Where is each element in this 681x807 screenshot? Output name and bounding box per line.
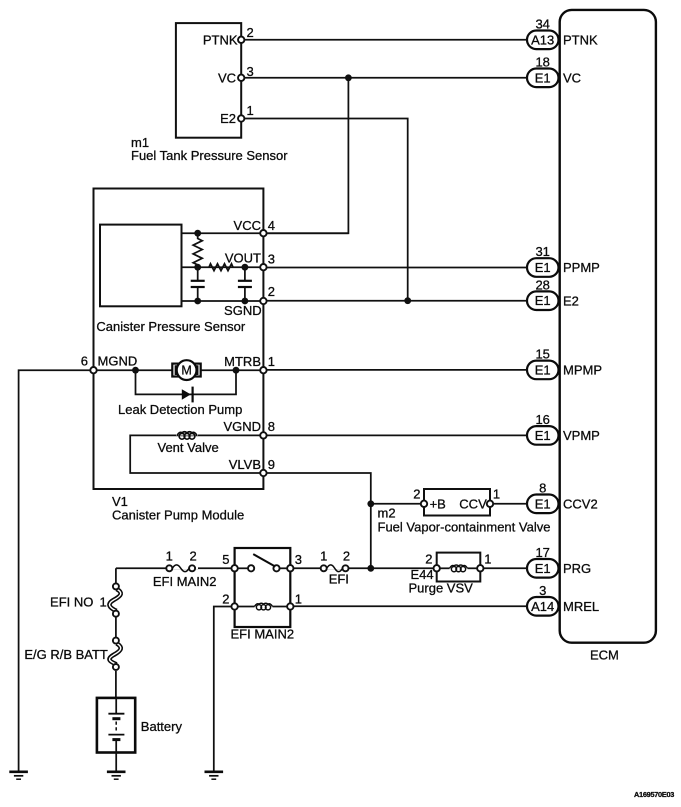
wire relay pin 2 to ground	[214, 607, 235, 771]
svg-text:PRG: PRG	[563, 561, 591, 576]
diode branch wire	[136, 370, 237, 394]
battery cells	[108, 698, 124, 771]
svg-text:1: 1	[320, 548, 327, 563]
junction +B/CCV	[367, 500, 374, 507]
wire VLVB: pin 9 right then down to CCV node	[263, 473, 370, 504]
wire MREL: relay pin 1 to ECM A14	[290, 605, 527, 607]
svg-text:E1: E1	[535, 362, 551, 377]
svg-text:2: 2	[425, 552, 432, 567]
wire fuse row to relay pin 5	[116, 567, 235, 569]
resistor R2 (series, horizontal)	[209, 264, 233, 271]
wire VOUT row: sensor to pin 3	[182, 266, 264, 268]
V1 pin 3 VOUT	[225, 250, 275, 270]
capacitor C1	[191, 267, 205, 301]
svg-text:EFI MAIN2: EFI MAIN2	[231, 627, 295, 642]
wire MPMP: pin 1 to ECM E1	[263, 369, 527, 371]
svg-text:16: 16	[535, 412, 549, 427]
svg-text:2: 2	[247, 25, 254, 40]
battery box	[97, 698, 135, 753]
ECM pin E1 PRG, terminal 17	[527, 545, 591, 578]
junction SGND/C2	[242, 298, 249, 305]
wire MGND to MTRB row inside V1	[94, 369, 264, 371]
svg-text:Canister Pump Module: Canister Pump Module	[112, 508, 244, 523]
svg-text:28: 28	[535, 277, 549, 292]
junction EFI/VSV node	[367, 565, 374, 572]
ground for relay pin 2	[205, 772, 224, 779]
ground for battery	[107, 772, 126, 779]
svg-text:E1: E1	[535, 260, 551, 275]
svg-text:A169570E03: A169570E03	[634, 790, 674, 799]
m1 component label	[131, 135, 288, 163]
svg-text:E1: E1	[535, 561, 551, 576]
svg-text:MTRB: MTRB	[224, 354, 261, 369]
wire VC branch down to VCC	[263, 78, 348, 233]
svg-text:3: 3	[295, 552, 302, 567]
junction SGND/C1	[194, 298, 201, 305]
svg-text:E2: E2	[563, 293, 579, 308]
junction motor right	[233, 367, 240, 374]
ECM box	[560, 10, 656, 643]
vent valve coil L1	[176, 430, 198, 440]
svg-text:1: 1	[268, 354, 275, 369]
svg-text:Battery: Battery	[141, 719, 183, 734]
svg-text:Canister Pressure Sensor: Canister Pressure Sensor	[96, 319, 246, 334]
ECM pin E1 CCV2, terminal 8	[527, 481, 598, 514]
svg-text:8: 8	[539, 481, 546, 496]
V1 pin 4 VCC	[234, 218, 275, 236]
wire PRG: VSV pin 1 to ECM E1	[480, 567, 527, 569]
svg-text:15: 15	[535, 347, 549, 362]
svg-text:6: 6	[81, 354, 88, 369]
svg-text:5: 5	[222, 552, 229, 567]
svg-text:VC: VC	[218, 70, 236, 85]
fuse EFI	[320, 548, 350, 586]
V1 component label	[112, 494, 244, 523]
junction VOUT/C2	[242, 264, 249, 271]
wire PPMP: pin 3 to ECM E1	[263, 267, 527, 269]
svg-text:1: 1	[295, 592, 302, 607]
CCV pin 2	[413, 487, 427, 507]
svg-text:1: 1	[100, 595, 107, 610]
relay pin 5	[222, 552, 238, 572]
ECM pin E1 MPMP, terminal 15	[527, 347, 602, 380]
wire VPMP: pin 8 to ECM E1	[263, 434, 527, 436]
svg-text:VPMP: VPMP	[563, 428, 600, 443]
svg-text:E/G R/B BATT: E/G R/B BATT	[24, 647, 108, 662]
svg-text:3: 3	[268, 252, 275, 267]
svg-text:VCC: VCC	[234, 218, 261, 233]
svg-text:MPMP: MPMP	[563, 363, 602, 378]
svg-text:+B: +B	[430, 496, 446, 511]
svg-text:E1: E1	[535, 293, 551, 308]
wire node to CCV pin 2	[371, 503, 424, 505]
purge VSV pin 1	[477, 552, 491, 572]
junction motor left	[132, 367, 139, 374]
svg-text:CCV2: CCV2	[563, 496, 598, 511]
svg-text:1: 1	[484, 552, 491, 567]
svg-text:EFI: EFI	[329, 571, 349, 586]
svg-text:8: 8	[268, 419, 275, 434]
ground for MGND	[9, 772, 28, 779]
svg-text:E2: E2	[220, 111, 236, 126]
svg-text:E1: E1	[535, 496, 551, 511]
wire PTNK: m1 pin 2 to ECM A13	[241, 39, 527, 41]
svg-text:2: 2	[268, 284, 275, 299]
svg-text:2: 2	[222, 592, 229, 607]
svg-text:VGND: VGND	[223, 419, 261, 434]
svg-text:M: M	[181, 364, 191, 378]
wire E2: m1 pin 1 right then down to E2 net	[241, 119, 408, 301]
svg-text:VOUT: VOUT	[225, 250, 261, 265]
svg-text:3: 3	[247, 64, 254, 79]
fuel vapor-containment valve CCV box	[424, 489, 490, 516]
m1 pin 3 VC	[238, 64, 254, 81]
svg-text:34: 34	[535, 17, 549, 32]
V1 pin 6 MGND	[81, 354, 137, 374]
svg-text:MREL: MREL	[563, 599, 599, 614]
ECM pin E1 VC, terminal 18	[527, 55, 581, 88]
relay switch contact	[235, 554, 291, 571]
V1 pin 9 VLVB	[229, 457, 275, 476]
junction E2 net	[404, 297, 411, 304]
svg-text:9: 9	[268, 457, 275, 472]
wire SGND row: sensor to pin 2	[182, 300, 264, 302]
ECM pin E1 E2, terminal 28	[527, 277, 579, 310]
ECM pin E1 VPMP, terminal 16	[527, 412, 600, 445]
svg-text:2: 2	[189, 548, 196, 563]
svg-text:A14: A14	[531, 599, 554, 614]
relay pin 1	[287, 592, 302, 610]
svg-text:ECM: ECM	[590, 648, 619, 663]
relay pin 2	[222, 592, 238, 610]
junction VC/VCC	[345, 74, 352, 81]
motor M (leak detection pump)	[172, 360, 200, 380]
svg-text:CCV: CCV	[459, 496, 487, 511]
svg-text:18: 18	[535, 55, 549, 70]
wire CCV2: CCV pin 1 to ECM E1	[490, 503, 527, 505]
V1 pin 1 MTRB	[224, 354, 275, 373]
svg-text:2: 2	[343, 548, 350, 563]
purge VSV pin 2	[425, 552, 440, 572]
V1 pin 8 VGND	[223, 419, 275, 438]
fuse EFI MAIN2	[153, 548, 217, 589]
wire relay pin 3 to EFI fuse to VSV node	[290, 567, 371, 569]
canister pressure sensor inner box	[100, 225, 182, 307]
vent valve loop wire	[130, 435, 263, 473]
svg-text:E1: E1	[535, 70, 551, 85]
capacitor C2	[238, 267, 252, 301]
svg-text:PTNK: PTNK	[203, 32, 238, 47]
m1 pin 1 E2	[238, 103, 254, 122]
purge VSV box	[437, 553, 481, 582]
wire +B node down to EFI node	[370, 504, 372, 569]
ECM pin E1 PPMP, terminal 31	[527, 244, 600, 277]
wire fuse row down to battery	[115, 568, 117, 698]
svg-text:1: 1	[166, 548, 173, 563]
wire VC: m1 pin 3 to ECM E1	[241, 77, 527, 79]
relay coil	[235, 603, 291, 610]
svg-text:VC: VC	[563, 70, 581, 85]
fuse EFI NO 1 (vertical)	[50, 583, 123, 617]
svg-text:1: 1	[247, 103, 254, 118]
svg-text:17: 17	[535, 545, 549, 560]
relay pin 3	[287, 552, 302, 572]
svg-text:Fuel Vapor-containment Valve: Fuel Vapor-containment Valve	[378, 519, 551, 534]
svg-text:Vent Valve: Vent Valve	[158, 440, 219, 455]
m1 pin 2 PTNK	[238, 25, 254, 43]
svg-text:3: 3	[539, 583, 546, 598]
svg-text:Purge VSV: Purge VSV	[409, 581, 474, 596]
relay EFI MAIN2 box	[235, 548, 291, 627]
svg-text:PPMP: PPMP	[563, 260, 600, 275]
resistor R1 (pull-up, vertical)	[193, 233, 202, 267]
svg-text:VLVB: VLVB	[229, 457, 261, 472]
svg-text:MGND: MGND	[98, 354, 138, 369]
CCV pin 1	[487, 487, 500, 507]
wire E2 net: pin 2 to ECM E1	[263, 300, 527, 302]
diode D1	[182, 387, 193, 403]
svg-text:EFI MAIN2: EFI MAIN2	[153, 574, 217, 589]
wire MGND to left ground	[19, 370, 94, 770]
fuse E/G R/B BATT (vertical)	[24, 637, 123, 671]
purge VSV labels E44	[409, 567, 474, 596]
svg-text:Leak Detection Pump: Leak Detection Pump	[118, 402, 242, 417]
svg-text:2: 2	[413, 487, 420, 502]
purge VSV coil	[440, 565, 477, 572]
m2 component label	[378, 506, 551, 535]
ECM pin A13 PTNK, terminal 34	[527, 17, 598, 50]
wire node to purge VSV pin 2	[371, 567, 437, 569]
svg-text:4: 4	[268, 218, 275, 233]
V1 pin 2 SGND	[224, 284, 275, 318]
svg-text:SGND: SGND	[224, 303, 262, 318]
svg-text:A13: A13	[531, 32, 554, 47]
junction VCC/resistor	[194, 230, 201, 237]
svg-text:PTNK: PTNK	[563, 32, 598, 47]
svg-text:1: 1	[493, 487, 500, 502]
junction VOUT/R1/C1	[194, 264, 201, 271]
canister pump module V1 box	[94, 189, 264, 490]
svg-text:E1: E1	[535, 428, 551, 443]
wire VCC row: sensor to pin 4 and to VC branch	[182, 232, 349, 234]
svg-text:31: 31	[535, 244, 549, 259]
svg-text:EFI NO: EFI NO	[50, 595, 93, 610]
svg-text:Fuel Tank Pressure Sensor: Fuel Tank Pressure Sensor	[131, 148, 288, 163]
fuel tank pressure sensor m1 box	[176, 23, 241, 138]
ECM pin A14 MREL, terminal 3	[527, 583, 599, 616]
